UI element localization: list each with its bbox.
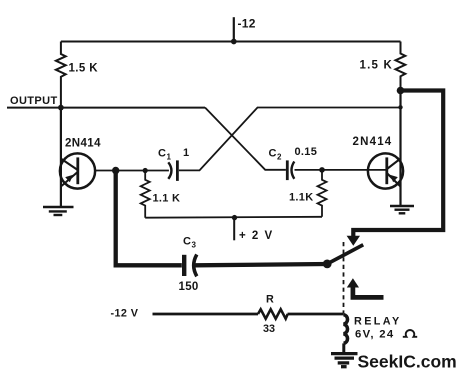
-12 supply tick <box>231 17 256 45</box>
svg-text:6V, 24: 6V, 24 <box>355 329 394 341</box>
wire crossover C1 to right-collector <box>179 108 401 171</box>
node +2V junction <box>232 215 237 220</box>
node left 1.1K top junction <box>143 168 148 173</box>
svg-text:C: C <box>183 236 191 248</box>
ground relay <box>331 354 358 367</box>
svg-text:0.15: 0.15 <box>295 146 318 158</box>
wire C2 to Q2 base <box>295 169 387 171</box>
svg-text:2: 2 <box>277 152 282 161</box>
node OUTPUT junction <box>58 105 64 111</box>
resistor 1.5K left <box>56 42 98 108</box>
svg-text:-12: -12 <box>238 17 256 31</box>
svg-text:1.5 K: 1.5 K <box>69 63 99 75</box>
svg-text:1: 1 <box>183 147 189 159</box>
svg-text:1.5 K: 1.5 K <box>360 60 394 72</box>
svg-text:C: C <box>269 147 277 159</box>
wire thick C3 to switch pole <box>196 264 328 265</box>
svg-text:1.1K: 1.1K <box>289 192 313 204</box>
svg-text:150: 150 <box>179 281 199 293</box>
capacitor C2 <box>269 146 318 180</box>
svg-text:-12 V: -12 V <box>111 308 139 320</box>
svg-text:2N414: 2N414 <box>65 138 101 150</box>
switch pole node <box>323 260 332 269</box>
wire thick C3 branch from Q1 base <box>116 171 182 266</box>
svg-text:C: C <box>158 148 166 160</box>
ground Q1 <box>43 207 74 215</box>
ground Q2 <box>390 206 414 213</box>
resistor R 33 <box>258 293 288 335</box>
svg-text:SeekIC.com: SeekIC.com <box>358 352 457 372</box>
resistor 1.1K right <box>289 170 327 217</box>
arrowhead down to switch <box>347 236 360 246</box>
svg-text:2N414: 2N414 <box>353 136 393 148</box>
capacitor C3 <box>179 236 199 293</box>
svg-text:+ 2 V: + 2 V <box>239 230 274 242</box>
OUTPUT wire and label <box>7 95 205 108</box>
-12V supply wire and label <box>111 308 344 320</box>
resistor 1.1K left <box>141 171 181 218</box>
+2V tick and label <box>234 218 273 242</box>
wire Q1 base <box>95 170 169 172</box>
switch arm <box>327 245 363 264</box>
relay actuation arrow <box>347 278 384 297</box>
svg-text:R: R <box>266 293 274 305</box>
dashed mechanical link <box>343 242 345 314</box>
wire crossover left-collector to C2 <box>205 108 286 170</box>
transistor Q2 2N414 (right) <box>353 91 404 207</box>
resistor 1.5K right <box>360 42 406 91</box>
svg-text:RELAY: RELAY <box>354 316 402 328</box>
node right collector junction <box>398 105 402 109</box>
node thick collector junction (right) <box>397 87 405 95</box>
node right 1.1K top junction <box>319 167 325 173</box>
capacitor C1 <box>158 147 189 181</box>
svg-text:3: 3 <box>192 241 197 250</box>
svg-text:1.1 K: 1.1 K <box>153 193 181 205</box>
svg-text:OUTPUT: OUTPUT <box>10 95 58 107</box>
svg-text:33: 33 <box>263 323 275 335</box>
transistor Q1 2N414 (left) <box>60 108 101 207</box>
wire top -12 supply rail <box>61 41 401 43</box>
node Q1 base thick junction <box>112 167 119 174</box>
wire +2V rail <box>145 216 322 219</box>
wire thick feedback from right collector to switch <box>353 91 443 237</box>
relay coil <box>344 315 418 352</box>
svg-text:1: 1 <box>167 153 172 162</box>
